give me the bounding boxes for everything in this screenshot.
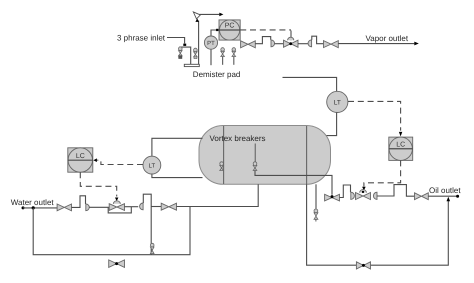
instrument PT bbox=[204, 36, 217, 49]
wire inlet line bbox=[167, 38, 185, 44]
svg-text:Water outlet: Water outlet bbox=[11, 198, 55, 207]
wire demister frame bbox=[180, 47, 191, 64]
wire bbox=[89, 206, 109, 208]
label Demister pad bbox=[193, 70, 241, 79]
svg-text:LC: LC bbox=[396, 142, 405, 149]
wire PT stem bbox=[210, 49, 212, 65]
svg-text:3 phrase inlet: 3 phrase inlet bbox=[117, 34, 166, 43]
valve water gate 1 bbox=[57, 204, 71, 211]
valve vapor gate 2 bbox=[324, 41, 339, 48]
valve vapor gate 1 bbox=[241, 41, 256, 48]
control valve vapor bbox=[284, 37, 299, 47]
fitting D right (water) bbox=[140, 203, 144, 210]
node water tee junction bbox=[32, 206, 35, 209]
inlet label "3 phrase inlet" bbox=[117, 34, 166, 43]
instrument LT right bbox=[327, 91, 348, 112]
demister pad slab bbox=[184, 64, 199, 66]
node inlet flange (black square) bbox=[183, 44, 186, 46]
svg-text:Demister pad: Demister pad bbox=[193, 70, 241, 79]
label Vapor outlet bbox=[366, 34, 409, 43]
svg-text:PC: PC bbox=[225, 23, 235, 30]
signal LT right to LC right (dashed) bbox=[348, 101, 402, 136]
wire PT signal to PC bbox=[211, 29, 219, 36]
svg-text:PT: PT bbox=[207, 40, 215, 47]
weir plate 1 bbox=[223, 126, 225, 184]
valve oil gate 1 bbox=[325, 194, 340, 201]
relief valve glyph bbox=[193, 12, 200, 22]
drain valve under vessel right bbox=[314, 184, 318, 221]
controller PC bbox=[219, 20, 240, 40]
valve oil gate 2 bbox=[415, 193, 429, 200]
wire oil jog left bbox=[340, 185, 351, 198]
wire water bypass loop bbox=[33, 207, 190, 255]
wire water jog left bbox=[72, 196, 86, 208]
wire oil feed from vortex breaker bbox=[255, 171, 332, 195]
label Oil outlet bbox=[429, 186, 461, 195]
node water outlet end dot bbox=[22, 206, 25, 209]
signal LT left to LC left (dashed) bbox=[93, 158, 143, 164]
valve water gate 2 bbox=[161, 203, 176, 210]
wire oil bypass loop bbox=[307, 184, 449, 265]
svg-text:Oil outlet: Oil outlet bbox=[429, 186, 461, 195]
wire water line to vessel bbox=[177, 184, 259, 206]
vessel separator bbox=[199, 126, 331, 185]
wire bbox=[151, 206, 161, 208]
wire bbox=[125, 206, 139, 208]
controller LC left bbox=[68, 148, 93, 172]
wire vapor outlet line with arrow bbox=[338, 42, 419, 46]
fitting D left (water) bbox=[86, 204, 89, 211]
svg-text:Vapor outlet: Vapor outlet bbox=[366, 34, 409, 43]
fitting D right (vapor) bbox=[308, 40, 312, 47]
wire water line left bbox=[23, 207, 57, 209]
wire vapor jog left bbox=[255, 37, 270, 44]
valve on bypass drop (ball+hourglass) bbox=[150, 243, 154, 253]
wire oil outlet line bbox=[428, 195, 459, 198]
wire vapor jog right bbox=[312, 36, 324, 44]
label Vortex breakers bbox=[210, 134, 266, 143]
fitting D right (oil) bbox=[373, 192, 377, 199]
wire LT left taps bbox=[152, 138, 203, 177]
weir plate 2 bbox=[306, 126, 308, 184]
valve oil bypass bbox=[356, 262, 370, 269]
vortex breaker 2 bbox=[220, 162, 224, 171]
signal PC to vapor control valve (dashed) bbox=[240, 30, 293, 41]
wire bbox=[275, 43, 284, 45]
svg-text:Vortex breakers: Vortex breakers bbox=[210, 134, 266, 143]
label Water outlet bbox=[11, 198, 55, 207]
wire water jog right and drop to bypass bbox=[143, 194, 151, 255]
wire flare line with arrow bbox=[199, 13, 223, 17]
fitting D left (oil) bbox=[351, 192, 355, 199]
signal LC right to oil control valve (dashed) bbox=[362, 160, 401, 190]
fitting D left (vapor) bbox=[271, 40, 275, 47]
wire oil jog right bbox=[377, 185, 415, 197]
svg-text:LT: LT bbox=[149, 162, 156, 169]
svg-text:LT: LT bbox=[334, 99, 341, 106]
wire vortex breaker stem bbox=[254, 144, 256, 162]
control valve oil bbox=[356, 190, 371, 200]
wire LT right lower tap bbox=[321, 113, 337, 136]
valve drain under PC right (ball+hourglass+stem) bbox=[232, 48, 236, 65]
valve drain right (ball+hourglass) bbox=[194, 48, 198, 59]
wire vessel tap to LT right bbox=[283, 77, 337, 91]
svg-text:LC: LC bbox=[76, 153, 85, 160]
instrument LT left bbox=[143, 156, 161, 174]
valve drain left (ball+hourglass) bbox=[179, 47, 183, 59]
signal LC left to water control valve (dashed) bbox=[80, 172, 118, 201]
arrow bypass into oil line bbox=[447, 197, 451, 201]
wire relief riser bbox=[198, 21, 200, 65]
controller LC right bbox=[389, 137, 413, 160]
wire bbox=[298, 43, 308, 45]
control valve water with bypass U bbox=[108, 201, 131, 213]
valve water bypass (floating) bbox=[109, 260, 125, 268]
valve drain under PC left (ball+hourglass+stem) bbox=[221, 48, 225, 65]
vortex breaker 1 bbox=[253, 162, 257, 171]
